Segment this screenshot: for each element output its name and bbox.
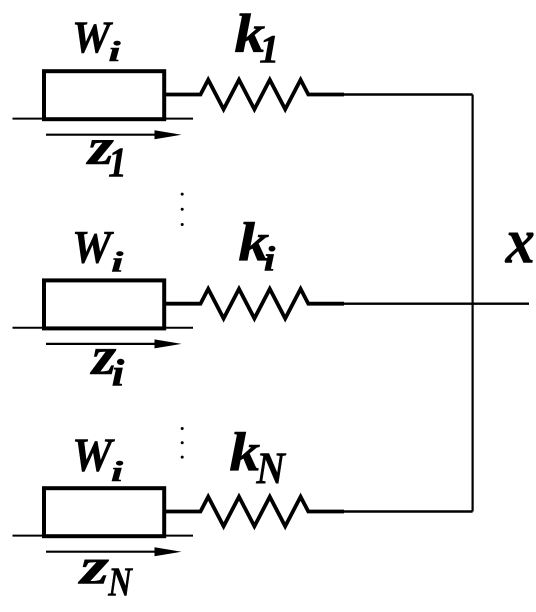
- mass block W_i row 3: [44, 488, 164, 536]
- svg-text:i: i: [112, 353, 125, 395]
- label z row 3: [78, 537, 133, 605]
- wire from spring k1 to bus: [344, 93, 473, 95]
- svg-text:i: i: [111, 455, 123, 486]
- svg-text:x: x: [505, 206, 535, 277]
- label W_i row 3: [72, 429, 123, 487]
- svg-text:1: 1: [108, 139, 126, 186]
- svg-text:z: z: [78, 537, 109, 595]
- svg-text:W: W: [72, 429, 116, 483]
- svg-text:i: i: [264, 240, 276, 278]
- label k1: [234, 3, 279, 71]
- label kN: [229, 422, 286, 495]
- svg-text:N: N: [255, 444, 286, 494]
- ground line row 1: [13, 118, 194, 120]
- displacement arrow row 2: [46, 343, 158, 345]
- vertical bus wire (common node): [472, 95, 474, 512]
- svg-text:i: i: [111, 246, 123, 277]
- mass block W_i row 1: [44, 71, 164, 119]
- spring k1: [166, 80, 344, 110]
- displacement arrow row 1: [46, 134, 158, 136]
- label W_i row 2: [72, 220, 123, 277]
- svg-text:1: 1: [259, 27, 279, 72]
- svg-text:W: W: [72, 220, 115, 273]
- ellipsis between rows 1 and 2: [181, 193, 184, 226]
- label W_i row 1: [72, 11, 121, 67]
- svg-text:i: i: [109, 35, 121, 66]
- ellipsis between rows 2 and 3: [181, 427, 184, 459]
- label ki: [238, 212, 275, 279]
- wire from spring ki to bus: [344, 303, 529, 305]
- label z row 1: [86, 118, 127, 186]
- spring kN: [166, 497, 344, 527]
- displacement arrow row 3: [46, 551, 158, 553]
- wire from spring kN to bus: [344, 510, 473, 512]
- ground line row 3: [13, 535, 194, 537]
- ground line row 2: [13, 327, 194, 329]
- mass block W_i row 2: [44, 280, 164, 328]
- spring ki: [166, 289, 344, 319]
- svg-text:W: W: [72, 11, 114, 63]
- svg-text:N: N: [107, 560, 133, 605]
- label z row 2: [90, 326, 125, 394]
